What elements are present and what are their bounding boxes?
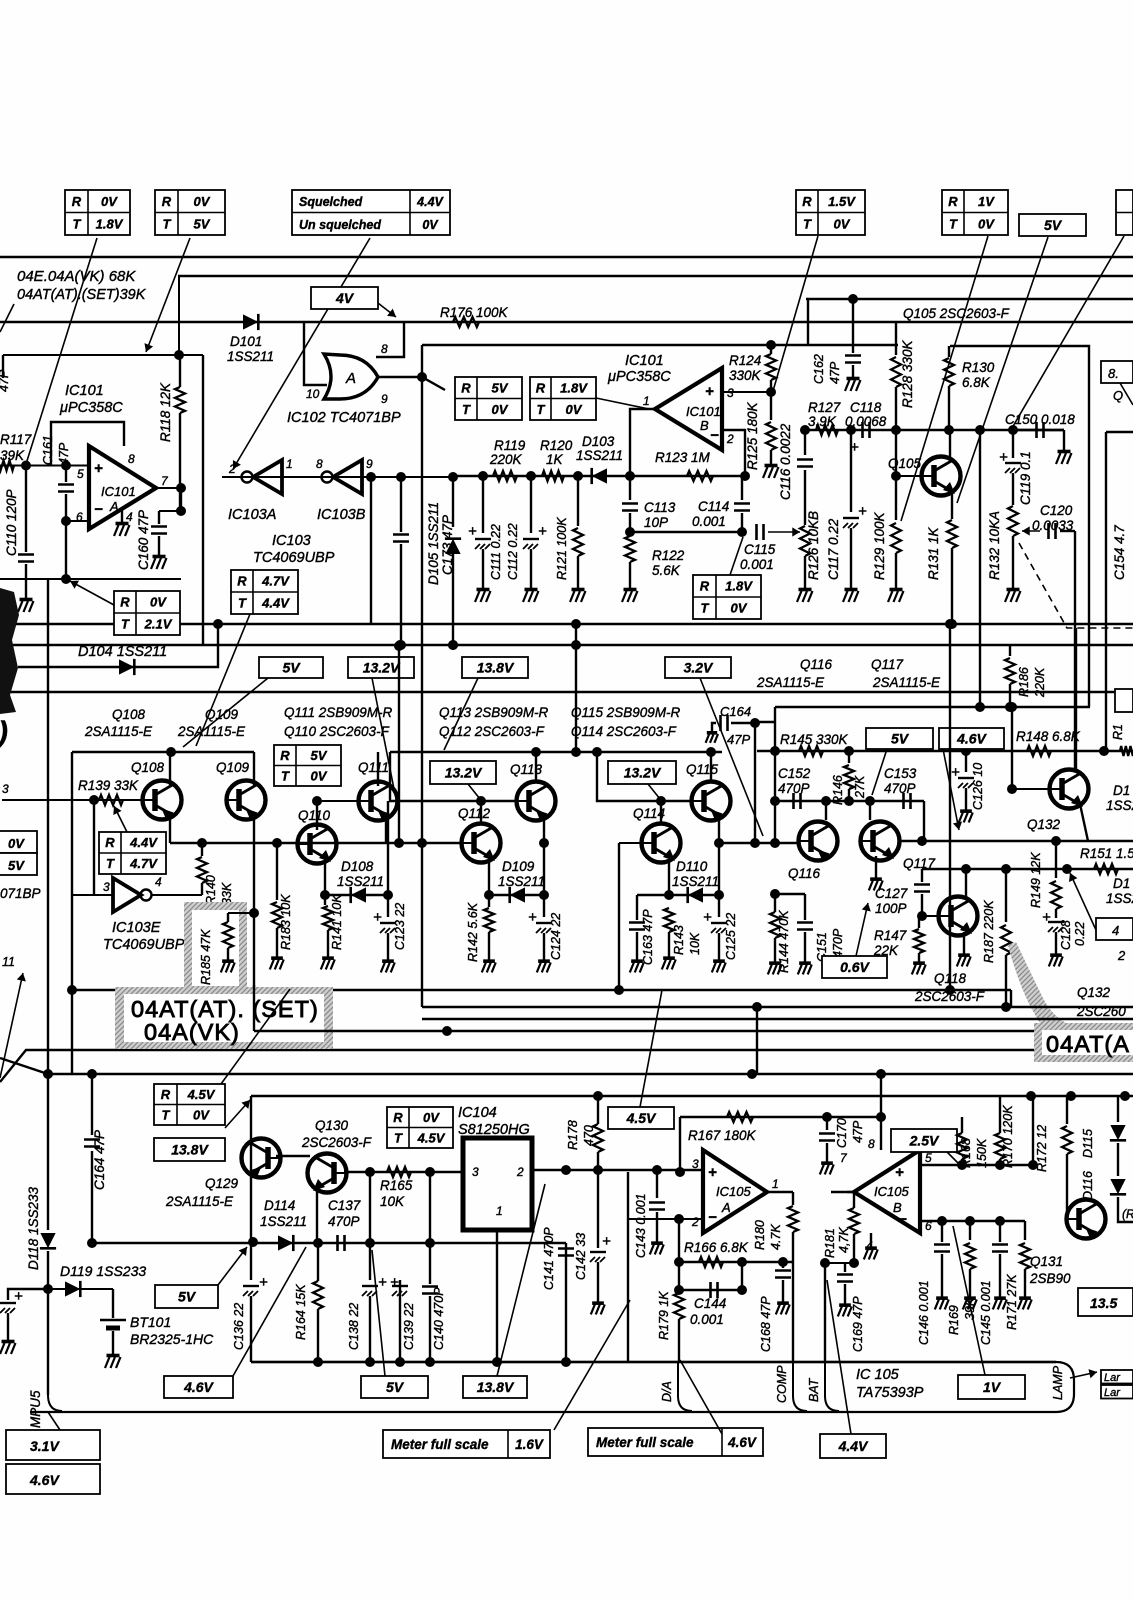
svg-text:04A(VK): 04A(VK) [144, 1019, 240, 1045]
svg-text:Q110: Q110 [298, 808, 331, 823]
svg-text:R: R [237, 574, 247, 589]
svg-text:R129 100K: R129 100K [872, 511, 887, 580]
table R1.8V/T0V [530, 377, 596, 420]
svg-text:4.5V: 4.5V [417, 1130, 446, 1145]
ground C169 [844, 1302, 846, 1305]
resistor R167 [727, 1112, 753, 1122]
gray box 04AT right [1034, 1023, 1133, 1062]
svg-text:Q108: Q108 [131, 760, 165, 775]
svg-text:470P: 470P [884, 781, 916, 796]
svg-text:A: A [109, 499, 119, 514]
svg-text:R: R [536, 380, 546, 395]
svg-text:C111 0.22: C111 0.22 [489, 524, 503, 580]
svg-text:+: + [602, 1233, 611, 1250]
svg-text:13.2V: 13.2V [624, 765, 662, 781]
svg-text:C110 120P: C110 120P [4, 489, 19, 556]
wire to left cap [8, 1289, 48, 1300]
wire rail y1050 [0, 1050, 1133, 1082]
wire C115 arrow [768, 531, 800, 533]
connector pin COMP [793, 1362, 807, 1411]
wire base bus y843 [170, 842, 460, 844]
capacitor C152 [794, 793, 801, 809]
wire R167 line [680, 1116, 881, 1118]
wire R166/C144 nodes [674, 1257, 684, 1267]
box 4V [311, 287, 378, 309]
transistor Q112 [462, 824, 501, 863]
leader 4.4V [827, 1280, 851, 1434]
wire q117 line y841 right [901, 840, 1133, 842]
svg-text:R142 5.6K: R142 5.6K [466, 902, 480, 962]
capacitor C160 [159, 510, 181, 512]
wire IC103E output [152, 894, 202, 896]
wire box2 [950, 346, 1089, 707]
junction x218 y624 [213, 619, 223, 629]
wire Q114 collector [660, 801, 662, 824]
svg-text:C164: C164 [720, 704, 751, 719]
wire Q114 base [619, 842, 642, 844]
svg-text:A: A [721, 1200, 731, 1215]
svg-text:1SS211: 1SS211 [672, 874, 719, 889]
wire Q105 emitter R131 [951, 492, 953, 519]
svg-text:13.8V: 13.8V [171, 1142, 209, 1158]
svg-text:T: T [701, 601, 710, 616]
leader 4V box [378, 303, 396, 317]
junction C113 R122 [625, 527, 635, 537]
svg-text:330K: 330K [729, 368, 762, 383]
svg-text:R144 470K: R144 470K [777, 910, 791, 973]
wire Q129 base to Q130 [276, 1155, 310, 1157]
svg-text:+: + [1042, 909, 1051, 926]
diode D104 [119, 659, 134, 674]
svg-text:MPU5: MPU5 [28, 1390, 43, 1428]
capacitor C117 [850, 430, 852, 512]
svg-text:C138 22: C138 22 [347, 1303, 361, 1350]
svg-text:Q130: Q130 [315, 1118, 349, 1133]
svg-text:Q113 2SB909M-R: Q113 2SB909M-R [439, 705, 549, 720]
transistor Q116 [799, 822, 838, 861]
svg-text:D1: D1 [1113, 783, 1130, 798]
resistor R172 [1066, 1096, 1068, 1124]
transistor Q113 [517, 782, 556, 821]
svg-text:D104 1SS211: D104 1SS211 [78, 644, 167, 660]
wire rail y322 [0, 321, 1133, 323]
junction R124 top [766, 340, 776, 350]
svg-text:47P: 47P [851, 1120, 865, 1143]
leader table1 to node [26, 238, 97, 464]
svg-text:4.4V: 4.4V [129, 835, 158, 850]
wire pin8 IC105B [880, 1074, 882, 1150]
wire OR output [379, 376, 422, 378]
diode D118 [47, 1074, 49, 1230]
wire x399 link [398, 646, 400, 843]
svg-text:1.5V: 1.5V [828, 194, 856, 209]
svg-text:T: T [949, 216, 958, 231]
svg-text:R171 27K: R171 27K [1005, 1274, 1019, 1330]
resistor R125 [770, 392, 772, 420]
resistor R117 [0, 461, 14, 471]
svg-text:C127: C127 [875, 886, 908, 901]
resistor partial right [1120, 746, 1133, 756]
capacitor C151 [804, 894, 806, 920]
svg-text:−: − [708, 1209, 717, 1226]
svg-text:R141 10K: R141 10K [330, 894, 344, 950]
connector box outline [30, 1362, 1074, 1412]
svg-text:3.9K: 3.9K [808, 414, 837, 429]
svg-text:1V: 1V [978, 194, 995, 209]
svg-text:Q132: Q132 [1077, 985, 1111, 1000]
box 5V meter [155, 1285, 218, 1308]
transistor Q118 [939, 897, 978, 936]
svg-text:2SA1115-E: 2SA1115-E [756, 675, 825, 690]
svg-text:2.1V: 2.1V [144, 617, 173, 632]
wire rail y299 [806, 298, 1133, 300]
connector pin D/A [678, 1362, 692, 1411]
leader R1V to Q105 base [901, 236, 988, 521]
svg-text:5V: 5V [492, 380, 509, 395]
capacitor C169 [844, 1263, 846, 1272]
ground R142 [488, 958, 490, 961]
svg-text:+: + [895, 1164, 904, 1181]
diode D105 [445, 539, 460, 554]
resistor R127 [816, 425, 838, 435]
ground R171 [1024, 1295, 1026, 1298]
capacitor C111 [482, 476, 484, 533]
ground C160 [158, 553, 160, 556]
svg-text:0.6V: 0.6V [840, 959, 870, 975]
wire pin5 line [920, 1164, 1033, 1166]
wire Q132 emitter [1080, 804, 1088, 841]
resistor R179 [678, 1219, 680, 1292]
wire collector rail q108 [72, 751, 254, 753]
junction rail x980 [975, 425, 985, 435]
wire pin2 [722, 430, 745, 476]
svg-text:R123 1M: R123 1M [655, 450, 711, 465]
leader partial table [1012, 236, 1124, 428]
svg-text:4.6V: 4.6V [183, 1379, 214, 1395]
svg-text:IC101: IC101 [65, 383, 104, 399]
svg-text:C160 47P: C160 47P [136, 510, 151, 570]
svg-text:0V: 0V [311, 768, 328, 783]
svg-text:4.4V: 4.4V [838, 1438, 869, 1454]
wire IC104 pin2 line [532, 1169, 703, 1171]
svg-text:0.0068: 0.0068 [845, 414, 887, 429]
box meter full scale 4.6V [588, 1428, 763, 1456]
op-amp IC105A [703, 1150, 767, 1233]
svg-text:C142 33: C142 33 [574, 1233, 588, 1280]
svg-text:2SB90: 2SB90 [1029, 1271, 1071, 1286]
svg-text:R: R [393, 1110, 403, 1125]
capacitor C143 [656, 1170, 658, 1198]
svg-text:R: R [280, 748, 290, 763]
svg-text:+: + [390, 1274, 399, 1291]
svg-text:470: 470 [582, 1125, 596, 1146]
junction R124 R125 [766, 387, 776, 397]
svg-text:BR2325-1HC: BR2325-1HC [130, 1331, 214, 1347]
ground C128 [1055, 952, 1057, 955]
svg-text:C168 47P: C168 47P [759, 1296, 773, 1352]
or-gate IC102A [324, 354, 378, 399]
junction C110 top [21, 461, 31, 471]
wire pin4 gnd [870, 1233, 872, 1245]
wire pin6 [66, 520, 89, 522]
wire Q118 collector [965, 869, 967, 897]
svg-text:IC101: IC101 [101, 484, 136, 499]
resistor R128 [895, 322, 897, 355]
table R1.8V/T0V b [693, 575, 761, 619]
svg-text:3.1V: 3.1V [30, 1438, 60, 1454]
svg-text:4.4V: 4.4V [416, 195, 444, 209]
wire Q132 base [1012, 788, 1050, 790]
wire box left stub [2, 355, 4, 378]
wire rail y1019 [422, 1018, 1133, 1020]
wire rail x371 [370, 477, 372, 624]
capacitor C150 [1013, 429, 1064, 431]
op-amp IC101B [655, 368, 722, 450]
ground R125 [770, 462, 772, 465]
svg-text:6.8K: 6.8K [962, 375, 991, 390]
svg-text:T: T [121, 617, 130, 632]
svg-text:+: + [468, 523, 477, 540]
svg-text:+: + [538, 523, 547, 540]
resistor R165 [387, 1167, 411, 1177]
svg-text:0V: 0V [8, 836, 25, 851]
svg-text:4.7V: 4.7V [129, 856, 158, 871]
leader 5V meter [218, 1247, 247, 1285]
svg-text:C150 0.018: C150 0.018 [1005, 412, 1075, 427]
leader 13.8V [444, 678, 478, 750]
junction R139 [89, 795, 99, 805]
svg-text:10: 10 [306, 387, 320, 401]
svg-text:8: 8 [128, 452, 135, 466]
resistor R145 [799, 746, 823, 756]
ic IC104 box [463, 1138, 532, 1230]
svg-text:R149 12K: R149 12K [1029, 852, 1043, 908]
svg-text:D118 1SS233: D118 1SS233 [26, 1186, 41, 1270]
svg-text:C119 0.1: C119 0.1 [1018, 451, 1033, 505]
svg-text:1: 1 [772, 1177, 779, 1191]
leader R1.5V to R124 node [773, 236, 818, 391]
resistor R121 [577, 476, 579, 526]
wire rail y276 [178, 275, 1133, 277]
capacitor left edge [0, 1302, 16, 1304]
svg-text:LAMP: LAMP [1051, 1365, 1065, 1400]
ground C142 [597, 1300, 599, 1303]
junction C114 [737, 527, 747, 537]
svg-text:IC 105: IC 105 [856, 1367, 900, 1383]
svg-text:5V: 5V [311, 748, 328, 763]
gray box R185 [184, 902, 247, 994]
svg-text:4: 4 [155, 875, 162, 889]
svg-text:R148 6.8K: R148 6.8K [1016, 729, 1081, 744]
wire pin6 line [920, 1220, 1025, 1222]
junction R121 [573, 471, 583, 481]
svg-text:8: 8 [381, 342, 388, 356]
svg-text:5: 5 [77, 467, 84, 481]
ground R121 [577, 586, 579, 589]
svg-text:IC101: IC101 [686, 404, 721, 419]
svg-text:Q115 2SB909M-R: Q115 2SB909M-R [571, 705, 681, 720]
wire top rail y257 [0, 256, 1133, 258]
svg-text:IC104: IC104 [458, 1105, 497, 1121]
wire meter box left edge [250, 1096, 252, 1242]
leader 5V bottom [372, 1250, 385, 1376]
svg-text:C120: C120 [1040, 503, 1073, 518]
svg-text:150K: 150K [975, 1138, 989, 1168]
junction C111 [478, 471, 488, 481]
ground R141 [327, 955, 329, 958]
resistor R176 [453, 317, 479, 327]
diode D110 [688, 887, 703, 902]
svg-text:Q110 2SC2603-F: Q110 2SC2603-F [284, 724, 390, 739]
leader table 2.1V [70, 581, 114, 605]
svg-text:+: + [858, 503, 867, 520]
svg-text:C153: C153 [884, 766, 917, 781]
svg-text:R131 1K: R131 1K [926, 526, 941, 580]
table R1V/T0V [942, 190, 1008, 235]
svg-text:220K: 220K [1033, 667, 1047, 698]
wire V2 x950 [949, 624, 951, 990]
svg-text:Q113: Q113 [510, 762, 543, 777]
svg-text:R167 180K: R167 180K [688, 1128, 757, 1143]
junction R127 C118 [846, 425, 856, 435]
svg-text:10K: 10K [688, 932, 702, 955]
box 13.5 partial [1078, 1288, 1133, 1316]
wire C152 C153 line [770, 796, 780, 806]
box 2.5V [891, 1129, 957, 1152]
svg-text:0V: 0V [194, 194, 211, 209]
wire OR gate pin8 from rail [376, 322, 404, 357]
wire Q109 collector [253, 752, 255, 786]
wire Q111 collector [377, 752, 379, 786]
capacitor C164 b [91, 1074, 93, 1135]
leader Q partial [1120, 383, 1133, 405]
wire bus y645 [0, 644, 1133, 646]
ground C126 [965, 808, 967, 811]
svg-text:BT101: BT101 [130, 1314, 171, 1330]
svg-text:4.4V: 4.4V [261, 596, 290, 611]
capacitor C114 [741, 476, 743, 500]
resistor R169 [969, 1221, 971, 1240]
svg-text:R: R [802, 194, 812, 209]
wire x94 down [93, 800, 95, 895]
svg-text:R: R [120, 595, 130, 610]
wire IC101A bottom [0, 578, 181, 580]
table R4.5V/T0V [154, 1084, 225, 1125]
capacitor C119 [1012, 430, 1014, 458]
svg-text:1SS211: 1SS211 [260, 1214, 307, 1229]
box 13.2V row [348, 657, 414, 678]
svg-text:D119 1SS233: D119 1SS233 [60, 1263, 146, 1279]
wire IC105B out pin7 [831, 1191, 854, 1193]
svg-text:0.001: 0.001 [740, 557, 774, 572]
wire pin3 line [598, 1169, 703, 1171]
resistor R122 [625, 536, 635, 562]
wire rail y1031 [254, 1030, 1133, 1032]
svg-text:Q131: Q131 [1030, 1254, 1063, 1269]
svg-text:R183 10K: R183 10K [279, 894, 293, 950]
wire x1012 [1011, 707, 1013, 789]
wire box1 top edge [422, 344, 898, 346]
diodes D115 D116 [1117, 1096, 1119, 1122]
box 13.2V b [608, 761, 676, 784]
leader to 04E label [0, 304, 14, 332]
wire COMP riser [792, 1262, 794, 1362]
wire R185 to x254 [228, 912, 254, 914]
capacitor C168 [778, 1257, 788, 1267]
svg-text:R170 120K: R170 120K [1001, 1105, 1015, 1168]
ground C111 [482, 586, 484, 589]
table R0V/T1.8V [65, 190, 130, 235]
svg-text:470P: 470P [831, 928, 845, 958]
wire Q113 base line [390, 752, 515, 801]
svg-text:R181: R181 [823, 1228, 837, 1258]
junction box top [174, 350, 184, 360]
svg-text:R145 330K: R145 330K [780, 732, 849, 747]
capacitor C124 [543, 895, 545, 917]
svg-text:220K: 220K [489, 452, 523, 467]
svg-text:C112 0.22: C112 0.22 [506, 523, 520, 580]
wire bus y692 [0, 691, 1133, 693]
svg-text:C125 22: C125 22 [724, 913, 738, 960]
svg-text:T: T [394, 1130, 403, 1145]
wire D110 line [637, 894, 719, 896]
box C154 area [1106, 431, 1133, 433]
svg-text:C117 0.22: C117 0.22 [826, 518, 841, 580]
svg-text:R124: R124 [729, 353, 761, 368]
table R0V/T4.5V meter [387, 1107, 453, 1148]
svg-text:4V: 4V [335, 290, 355, 306]
ground C170 [826, 1160, 828, 1163]
transistor Q114 [642, 824, 681, 863]
svg-text:C137: C137 [328, 1198, 361, 1213]
svg-text:5V: 5V [194, 216, 211, 231]
svg-text:R168: R168 [959, 1138, 973, 1168]
svg-text:C136 22: C136 22 [232, 1303, 246, 1350]
ground C150 [1063, 448, 1065, 451]
box 13.8V bottom [463, 1376, 527, 1398]
wire rail y1096 [251, 1095, 1133, 1097]
svg-text:C143 0.001: C143 0.001 [634, 1193, 648, 1258]
leader 5V to R131 [957, 237, 1048, 503]
svg-text:04AT(A: 04AT(A [1046, 1031, 1130, 1057]
op-amp IC101A [89, 446, 156, 529]
svg-text:C163 47P: C163 47P [641, 909, 655, 965]
svg-text:1K: 1K [546, 452, 564, 467]
ground R126 [804, 586, 806, 589]
wire Q111 emitter [385, 816, 387, 843]
wire Q118 emitter [963, 932, 965, 952]
svg-text:27K: 27K [853, 775, 867, 799]
transistor Q129 [242, 1139, 281, 1178]
resistor R139 [99, 795, 123, 805]
resistor R131 [947, 520, 957, 548]
svg-text:Meter full scale: Meter full scale [391, 1437, 489, 1452]
svg-text:μPC358C: μPC358C [59, 400, 123, 416]
ground C146 [941, 1295, 943, 1298]
svg-text:Lar: Lar [1104, 1372, 1121, 1384]
resistor R120 [542, 471, 564, 481]
wire Q118 base [922, 915, 938, 917]
svg-text:C113: C113 [644, 500, 676, 515]
box 5V mid [866, 728, 933, 749]
capacitor C161 [65, 465, 67, 482]
wire D114 line [92, 1242, 566, 1244]
resistor R119 [493, 471, 517, 481]
svg-text:T: T [162, 1107, 171, 1122]
svg-text:5: 5 [925, 1151, 932, 1165]
svg-text:470P: 470P [328, 1214, 360, 1229]
leader 13.2V b [648, 784, 660, 799]
